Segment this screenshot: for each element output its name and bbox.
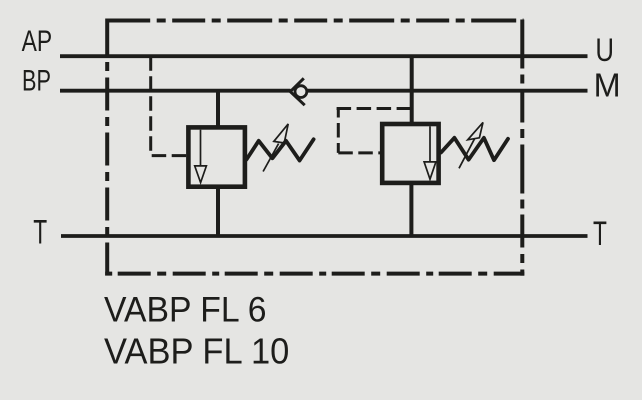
svg-text:VABP FL 6: VABP FL 6 <box>104 291 267 330</box>
check valve C1 seat <box>290 78 304 105</box>
valve V2 adjustment arrow head <box>468 122 483 139</box>
relief valve V1 body <box>188 127 245 186</box>
svg-text:AP: AP <box>22 25 52 58</box>
svg-text:T: T <box>593 215 607 253</box>
svg-text:T: T <box>33 214 47 252</box>
border bottom side <box>105 272 524 276</box>
border top side <box>105 19 523 23</box>
valve V1 flow arrow head <box>195 166 207 183</box>
valve V2 spring <box>441 138 508 160</box>
valve V2 adjustment arrow shaft <box>459 139 475 169</box>
relief valve V2 body <box>382 124 438 183</box>
wire valve V1 outlet to T <box>216 185 220 236</box>
svg-text:M: M <box>594 67 621 104</box>
port line AP / U <box>60 54 588 58</box>
wire BP to valve V1 inlet <box>216 91 220 129</box>
valve V1 flow arrow shaft <box>200 130 202 166</box>
pilot line X2 (dashed, from V2 inlet wire) top horizontal <box>337 107 412 110</box>
enclosure border (dash-dot subplate outline) <box>105 20 524 276</box>
border left side <box>105 23 109 276</box>
wire valve V2 outlet to T <box>409 181 413 236</box>
pilot line X2 horizontal into valve V2 <box>338 151 380 154</box>
svg-text:VABP FL 10: VABP FL 10 <box>104 331 289 372</box>
pilot line X1 (dashed, AP to valve V1) vertical <box>149 56 152 155</box>
port line BP / M (left of check valve) <box>60 89 291 93</box>
valve V2 flow arrow shaft <box>429 126 431 161</box>
svg-text:BP: BP <box>22 65 51 98</box>
border right side <box>520 20 524 276</box>
pilot line X1 horizontal into valve V1 <box>151 154 187 157</box>
valve V2 flow arrow head <box>424 162 436 179</box>
valve V1 spring <box>247 139 314 160</box>
wire AP to valve V2 inlet <box>410 56 414 126</box>
port line T <box>61 234 588 238</box>
port line BP / M (right of check valve) <box>307 89 588 93</box>
valve V1 adjustment arrow shaft <box>263 144 279 172</box>
pilot line X2 vertical <box>337 109 340 153</box>
svg-text:U: U <box>595 32 614 68</box>
check valve C1 ball <box>295 86 307 98</box>
valve V1 adjustment arrow head <box>274 124 288 143</box>
